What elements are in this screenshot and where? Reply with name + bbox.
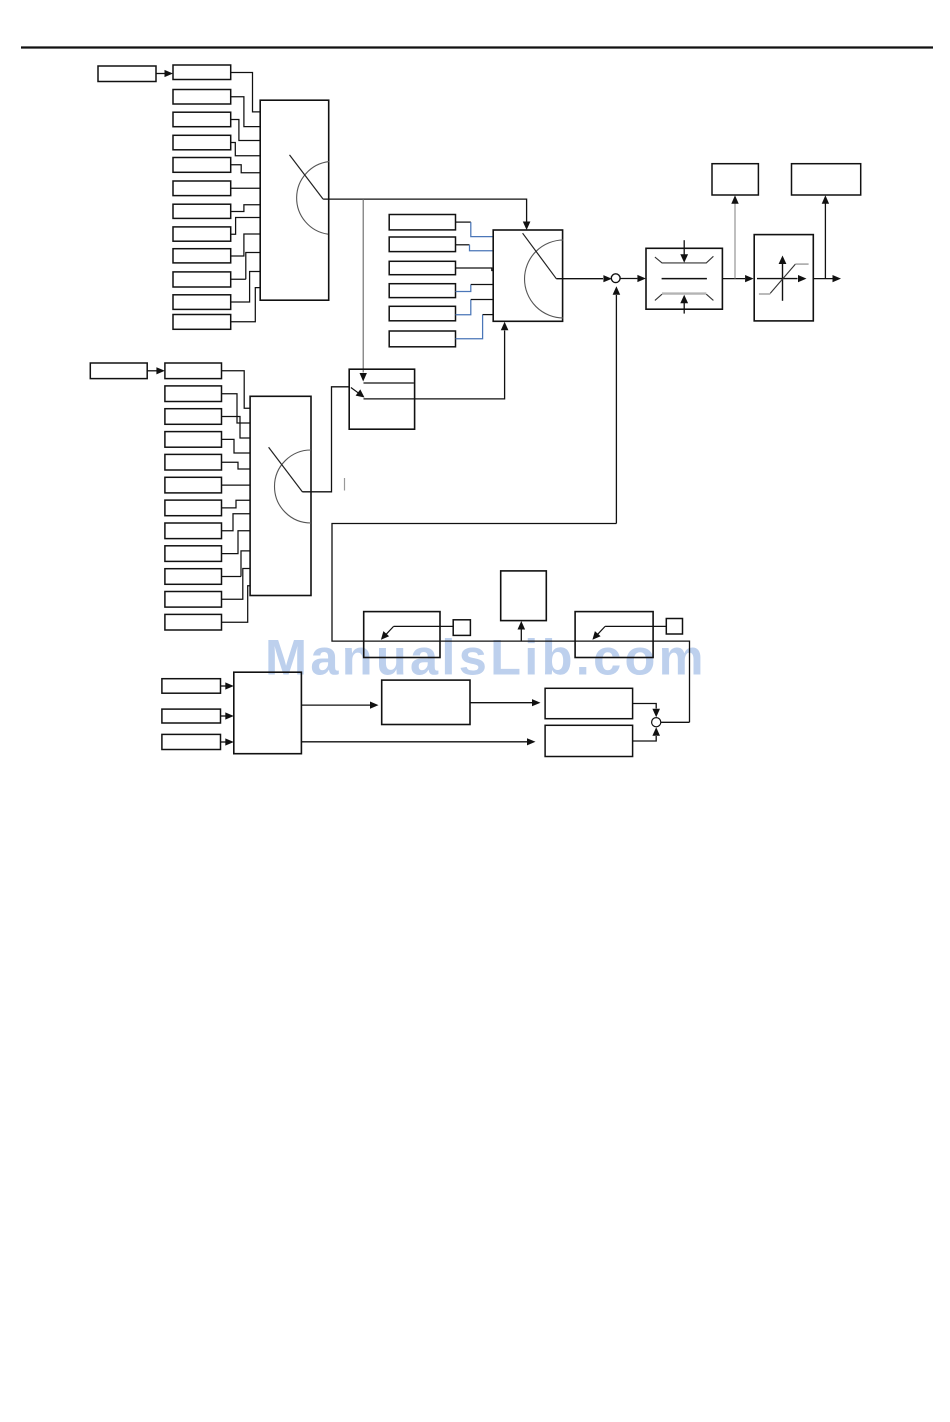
wire input-2 arrow <box>221 715 226 717</box>
box A7 <box>173 204 231 218</box>
box B6 <box>165 477 222 493</box>
box input-3 <box>162 734 221 749</box>
box A6 <box>173 181 231 196</box>
wire A5 <box>231 165 260 173</box>
box B1 <box>165 363 222 379</box>
ramp curve diagonal <box>770 264 795 293</box>
switch R contact stub <box>605 625 666 627</box>
wire B5 <box>222 462 251 469</box>
wire A3 <box>231 120 260 141</box>
result box upper <box>545 688 633 718</box>
changeover switch box U6 <box>349 369 414 429</box>
readout box A <box>712 164 758 195</box>
box B7 <box>165 500 222 516</box>
wire A2 <box>231 97 260 127</box>
box M6 <box>389 331 455 347</box>
arrowhead of switch arm <box>356 389 365 397</box>
wire U1 output to U2 top <box>323 199 526 221</box>
arrowhead of switch R arm <box>592 631 600 640</box>
box A11 <box>173 295 231 310</box>
box B3 <box>165 409 222 425</box>
arrowhead into summing node bottom <box>613 286 621 295</box>
box A4 <box>173 135 231 150</box>
switch box L <box>364 612 440 658</box>
ramp box U4 <box>754 235 813 321</box>
box input-1 <box>162 679 221 694</box>
wire U5 output up to changeover switch <box>303 387 351 492</box>
wire B10 <box>222 551 251 577</box>
arrowhead into changeover switch top <box>360 373 367 382</box>
wire A11 <box>231 272 260 303</box>
wire ramp box output <box>813 278 832 280</box>
wire B1 <box>222 371 251 409</box>
limiter lower-limit gray bar <box>662 292 706 294</box>
changeover switch arm <box>351 388 360 395</box>
wire A8 <box>231 218 260 235</box>
box B10 <box>165 569 222 585</box>
wire result upper to node <box>633 704 657 709</box>
ramp curve upper gray segment <box>795 263 808 265</box>
result box lower <box>545 725 633 756</box>
parameter square L <box>453 620 470 636</box>
wire B6 <box>222 484 251 486</box>
selector U5 body <box>250 396 311 595</box>
box B11 <box>165 592 222 608</box>
switch box R <box>575 612 653 658</box>
wire B11 <box>222 569 251 600</box>
wire U2 output <box>556 278 603 280</box>
wire container out lower <box>301 741 527 743</box>
summing node N2 <box>652 718 661 727</box>
switch L contact stub <box>394 625 454 627</box>
box source-1 <box>98 66 156 82</box>
wire A6 <box>231 187 260 189</box>
wire A7 <box>231 205 260 212</box>
arrowhead into list box 1 <box>165 70 174 77</box>
selector U2 wiper <box>523 233 557 279</box>
stray tick mark <box>344 478 346 491</box>
box A9 <box>173 249 231 263</box>
parameter square R <box>666 619 682 635</box>
box source-2 <box>90 363 147 379</box>
selector U1 wiper <box>290 155 324 199</box>
wire node N2 to riser <box>661 721 690 723</box>
box M5 <box>389 306 455 321</box>
limiter lower-limit diagonals <box>655 294 714 300</box>
wire summing node to limiter <box>620 278 637 280</box>
box M3 <box>389 261 455 274</box>
box A2 <box>173 90 231 105</box>
wire riser to readout box A <box>734 201 736 279</box>
wire source-2 to list <box>147 370 157 372</box>
wire branch down to changeover switch <box>362 199 364 373</box>
box input-2 <box>162 709 221 723</box>
wire A1 <box>231 73 260 112</box>
limiter signal line <box>662 278 707 280</box>
box A3 <box>173 112 231 127</box>
wire up-arrow into jog box <box>520 630 522 642</box>
wire changeover output to U2 bottom <box>364 331 505 399</box>
wire M5 blue part <box>456 300 471 315</box>
box A5 <box>173 158 231 173</box>
limiter lower-limit set arrow <box>683 303 685 314</box>
arrowhead into summing node <box>603 275 612 282</box>
arrowhead into readout box B <box>822 195 829 204</box>
wire input-1 arrow <box>221 685 226 687</box>
wire M3 <box>456 268 494 271</box>
arrowhead into limiter <box>637 275 646 282</box>
ramp vertical axis <box>782 264 784 301</box>
wire A10 <box>231 253 260 280</box>
wire B3 <box>222 417 251 439</box>
top rule <box>21 46 933 48</box>
box B12 <box>165 614 222 630</box>
wire M4 black part <box>471 284 493 286</box>
selector U2 dial arc <box>525 240 564 318</box>
wire M1 blue part <box>471 222 493 237</box>
wire lower feedback path <box>332 524 690 723</box>
readout box B <box>792 164 861 195</box>
limiter box U3 <box>646 248 722 309</box>
wire M6 black part <box>483 314 494 316</box>
wire limiter to ramp box <box>722 278 745 280</box>
switch R arm <box>597 626 605 634</box>
wire M2 black part <box>456 244 470 246</box>
wire M2 blue part <box>470 245 494 251</box>
wire A9 <box>231 234 260 256</box>
selector U1 dial arc <box>297 162 330 235</box>
switch L arm <box>386 626 394 634</box>
arrowhead of switch L arm <box>381 631 389 640</box>
ramp curve lower gray segment <box>759 293 770 295</box>
changeover switch upper contact bar <box>364 382 414 384</box>
jog box <box>501 571 547 621</box>
wire A4 <box>231 143 260 156</box>
ramp horizontal axis <box>757 278 798 280</box>
calc box <box>382 680 470 724</box>
box M2 <box>389 237 455 252</box>
wire riser to readout box B <box>824 201 826 279</box>
limiter upper-limit set arrow <box>683 240 685 254</box>
arrowhead into list box B1 <box>156 367 165 374</box>
wire B7 <box>222 500 251 508</box>
box B2 <box>165 386 222 402</box>
wire input-3 arrow <box>221 741 226 743</box>
selector U5 wiper <box>269 447 303 492</box>
wire B9 <box>222 531 251 554</box>
wire A12 <box>231 288 260 322</box>
box B8 <box>165 523 222 539</box>
selector U5 dial arc <box>275 450 312 523</box>
wire result lower to node <box>633 736 657 741</box>
wire source-1 to list <box>156 73 166 75</box>
box A12 <box>173 315 231 330</box>
box A1 <box>173 65 231 80</box>
wire M5 black part <box>471 299 493 301</box>
wire B2 <box>222 394 251 423</box>
box M1 <box>389 215 455 230</box>
arrowhead into readout box A <box>731 195 738 204</box>
box B9 <box>165 546 222 562</box>
wire B8 <box>222 514 251 531</box>
arrowhead into U2 top <box>523 222 531 231</box>
wire M1 black part <box>456 221 471 223</box>
arrowhead into node bottom <box>652 727 660 736</box>
wire riser from lower path into summing node <box>615 295 617 524</box>
box B5 <box>165 454 222 470</box>
wire calc box out <box>470 702 532 704</box>
selector U2 body <box>493 230 562 321</box>
wire B12 <box>222 586 251 623</box>
summing node N1 <box>611 274 620 283</box>
arrowhead into node top <box>652 709 660 718</box>
box M4 <box>389 284 455 298</box>
wire container out upper <box>301 704 370 706</box>
processing container box <box>234 672 302 754</box>
limiter upper-limit symbol <box>655 256 714 263</box>
box A10 <box>173 272 231 287</box>
wire M6 blue part <box>456 315 483 339</box>
arrowhead into U2 bottom <box>501 322 509 331</box>
selector U1 body <box>260 100 329 300</box>
wire B4 <box>222 439 251 453</box>
final output arrowhead <box>833 275 842 282</box>
arrowhead into ramp box <box>745 275 754 282</box>
box A8 <box>173 227 231 241</box>
wire M4 blue part <box>456 285 471 292</box>
box B4 <box>165 432 222 448</box>
